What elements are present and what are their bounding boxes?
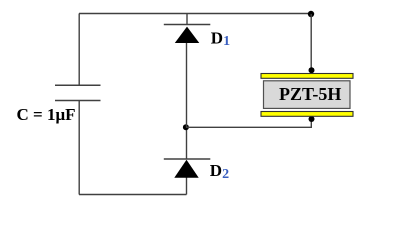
diode D1 cathode bar	[164, 24, 211, 26]
node junction dot middle	[183, 124, 189, 130]
diode D2 cathode bar	[164, 158, 211, 160]
PZT bottom electrode strip	[261, 112, 353, 117]
svg-text:C = 1μF: C = 1μF	[17, 105, 76, 124]
PZT-5H body box	[264, 81, 351, 109]
wire middle horizontal to PZT bottom	[186, 119, 311, 127]
diode D2 triangle	[174, 160, 198, 178]
svg-text:D1: D1	[211, 28, 230, 48]
wire left vertical upper	[78, 14, 80, 86]
capacitor C1 top plate	[55, 84, 101, 86]
wire D1 cathode vertical	[186, 14, 188, 25]
node dot top right corner	[308, 11, 314, 17]
node dot PZT bottom electrode	[309, 116, 315, 122]
wire D2 cathode to middle node	[186, 127, 188, 159]
diode D1 triangle	[175, 27, 200, 43]
node dot PZT top electrode	[309, 67, 315, 73]
wire left vertical lower	[78, 101, 80, 195]
wire top horizontal	[79, 13, 311, 15]
wire right vertical to PZT top	[310, 14, 312, 70]
svg-text:PZT-5H: PZT-5H	[279, 84, 341, 104]
capacitor C1 bottom plate	[55, 100, 101, 102]
PZT top electrode strip	[261, 74, 353, 79]
svg-text:D2: D2	[210, 161, 229, 182]
wire D1 anode to middle node	[186, 43, 188, 127]
wire bottom horizontal	[79, 194, 187, 196]
wire D2 anode vertical	[186, 176, 188, 195]
